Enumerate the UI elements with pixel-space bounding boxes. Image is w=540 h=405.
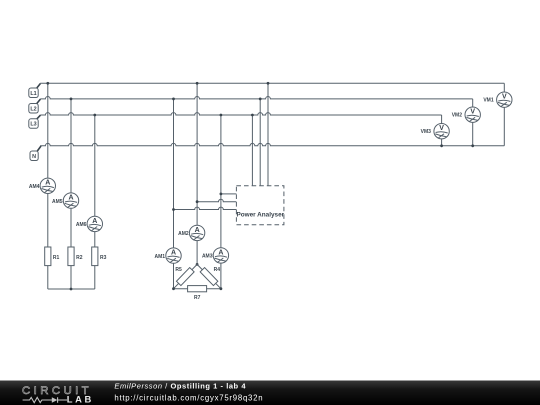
resistor R2 bbox=[68, 247, 74, 266]
ammeter AM2 bbox=[189, 225, 204, 240]
wire L1 drop to AM2 bbox=[196, 83, 198, 264]
wire PA tap from L3 bbox=[251, 115, 253, 186]
svg-text:http://circuitlab.com/cgyx75r9: http://circuitlab.com/cgyx75r98q32n bbox=[114, 393, 263, 402]
junction at x=197.1 y=201.7 bbox=[196, 200, 199, 203]
wire L3 bus bbox=[40, 113, 441, 115]
wire L2 bus bbox=[40, 96, 473, 98]
junction at L1 x=47.8 bbox=[46, 82, 49, 85]
power analyser box bbox=[236, 186, 284, 225]
svg-text:R4: R4 bbox=[214, 267, 221, 273]
junction at L1 x=197.1 bbox=[196, 82, 199, 85]
svg-text:R1: R1 bbox=[53, 255, 60, 261]
junction at L3 x=94.8 bbox=[93, 114, 96, 117]
junction star point bbox=[70, 288, 73, 291]
wire VM2 branch bbox=[472, 99, 474, 146]
ammeter AM3 bbox=[213, 248, 228, 263]
svg-text:L3: L3 bbox=[30, 122, 36, 128]
wire L1 bus bbox=[40, 82, 504, 84]
voltmeter VM2 bbox=[465, 107, 480, 122]
junction at L2 x=71.0 bbox=[70, 98, 73, 101]
wire L3 drop to AM3 bbox=[220, 115, 222, 289]
ammeter AM4 bbox=[40, 178, 55, 193]
wire delta left leg bbox=[174, 264, 198, 288]
footer bar bbox=[0, 381, 540, 405]
wire N bus bbox=[40, 143, 504, 145]
wire delta right leg bbox=[197, 264, 221, 288]
svg-text:L1: L1 bbox=[30, 91, 36, 97]
svg-text:VM1: VM1 bbox=[483, 98, 494, 104]
wire VM1 branch bbox=[503, 83, 505, 146]
svg-text:N: N bbox=[32, 154, 36, 160]
wire PA current input 2 bbox=[197, 199, 236, 201]
wire phase L2 drop to AM5 bbox=[70, 99, 72, 289]
wire PA tap from L2 bbox=[259, 99, 261, 186]
junction delta bottom-left bbox=[172, 287, 175, 290]
ammeter AM5 bbox=[63, 193, 78, 208]
svg-text:AM4: AM4 bbox=[29, 184, 40, 190]
svg-text:R7: R7 bbox=[194, 295, 201, 301]
svg-text:Power Analyser: Power Analyser bbox=[236, 211, 284, 218]
resistor R5 bbox=[176, 268, 194, 286]
wire PA current input 3 bbox=[174, 207, 237, 209]
junction at x=173.5 y=209.5 bbox=[172, 208, 175, 211]
junction at L3 x=252.4 bbox=[251, 114, 254, 117]
resistor R4 bbox=[200, 268, 218, 286]
voltmeter VM1 bbox=[497, 92, 512, 107]
resistor R3 bbox=[92, 247, 98, 266]
junction delta bottom-right bbox=[220, 287, 223, 290]
node L3 bbox=[29, 115, 41, 128]
node L2 bbox=[29, 99, 41, 113]
svg-text:VM3: VM3 bbox=[421, 129, 432, 135]
svg-text:VM2: VM2 bbox=[452, 113, 463, 119]
wire PA current input 1 bbox=[221, 193, 237, 195]
svg-text:R3: R3 bbox=[100, 255, 107, 261]
wire phase L1 drop to AM4 bbox=[47, 83, 49, 289]
junction at L1 x=268.0 bbox=[267, 82, 270, 85]
junction VM3 at N bbox=[440, 144, 443, 147]
svg-text:AM6: AM6 bbox=[76, 222, 87, 228]
logo diode bbox=[52, 397, 58, 403]
svg-text:LAB: LAB bbox=[67, 394, 94, 405]
svg-text:L2: L2 bbox=[30, 106, 36, 112]
ammeter AM1 bbox=[166, 248, 181, 263]
junction at L2 x=173.5 bbox=[172, 98, 175, 101]
wire VM3 branch bbox=[441, 115, 443, 146]
logo squiggle wire bbox=[23, 397, 67, 403]
wire delta bottom bbox=[174, 288, 221, 290]
resistor R1 bbox=[45, 247, 51, 266]
svg-text:EmilPersson / Opstilling 1 - l: EmilPersson / Opstilling 1 - lab 4 bbox=[114, 382, 246, 391]
svg-text:AM5: AM5 bbox=[52, 199, 63, 205]
svg-text:R5: R5 bbox=[175, 267, 182, 273]
junction delta apex bbox=[196, 263, 199, 266]
svg-text:AM1: AM1 bbox=[155, 254, 166, 260]
node N bbox=[30, 146, 41, 161]
node L1 bbox=[29, 84, 41, 98]
wire phase L3 drop to AM6 bbox=[94, 115, 96, 289]
wire star tie bottom bbox=[48, 288, 95, 290]
ammeter AM6 bbox=[87, 216, 102, 231]
junction at x=220.9 y=193.9 bbox=[220, 193, 223, 196]
junction at L2 x=260.2 bbox=[259, 98, 262, 101]
svg-text:AM2: AM2 bbox=[178, 231, 189, 237]
junction VM2 at N bbox=[471, 144, 474, 147]
junction at L3 x=220.9 bbox=[220, 114, 223, 117]
svg-text:AM3: AM3 bbox=[202, 254, 213, 260]
svg-text:R2: R2 bbox=[76, 255, 83, 261]
wire L2 drop to AM1 bbox=[173, 99, 175, 289]
resistor R7 bbox=[188, 286, 207, 292]
voltmeter VM3 bbox=[434, 124, 449, 139]
wire PA tap from L1 bbox=[267, 83, 269, 186]
